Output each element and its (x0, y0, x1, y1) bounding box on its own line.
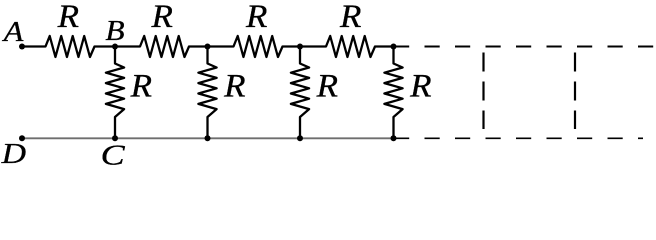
svg-text:R: R (339, 0, 362, 35)
svg-text:R: R (150, 0, 173, 35)
svg-text:R: R (223, 68, 246, 104)
svg-text:B: B (105, 16, 124, 47)
svg-text:R: R (316, 68, 339, 104)
svg-text:C: C (101, 141, 126, 172)
svg-text:R: R (130, 68, 153, 104)
svg-text:R: R (245, 0, 268, 35)
svg-text:R: R (57, 0, 80, 35)
svg-text:A: A (2, 17, 25, 48)
svg-text:R: R (409, 68, 432, 104)
svg-text:D: D (0, 139, 26, 170)
